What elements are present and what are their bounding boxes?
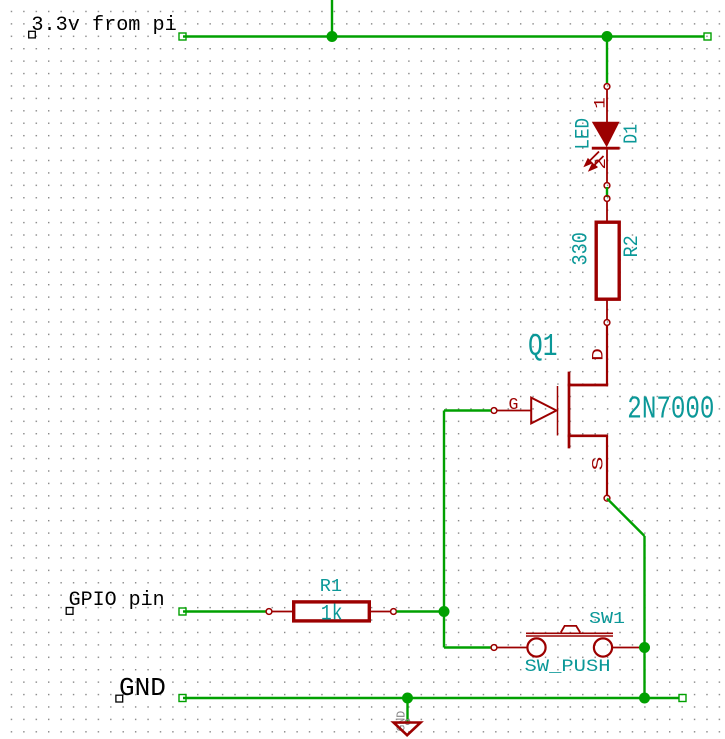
svg-text:R1: R1: [320, 576, 342, 597]
pin: R1 left pin: [272, 611, 294, 613]
svg-text:SW_PUSH: SW_PUSH: [525, 656, 611, 676]
junction: top rail / vertical feed: [327, 31, 338, 42]
node: Q1 source pin end circle: [604, 495, 610, 501]
transistor Q1 drain horizontal arm: [568, 384, 608, 387]
value label 2N7000 of Q1: [627, 393, 714, 428]
node: R2 top pin end circle: [604, 196, 610, 202]
svg-text:3.3v from pi: 3.3v from pi: [31, 14, 176, 37]
resistor R1 body: [294, 602, 370, 621]
switch SW1 actuator bump: [561, 626, 580, 633]
diode D1 triangle: [592, 122, 620, 148]
pin: R2 bottom pin: [606, 299, 608, 320]
wire: bottom GND rail: [183, 697, 679, 699]
reference label Q1: [528, 328, 557, 365]
ground symbol hidden pin name GND: [396, 711, 409, 732]
pin: Q1 gate pin: [497, 410, 531, 412]
node: LED D1 pin 1 end circle: [604, 84, 610, 90]
reference label SW1: [589, 609, 625, 628]
node: R1 left pin end circle: [266, 609, 272, 615]
wire: R1 to gate bus junction: [396, 610, 444, 612]
wire: top rail end open square: [704, 33, 711, 40]
svg-text:SW1: SW1: [589, 609, 625, 628]
junction: SW1 right pin / right vertical: [639, 642, 650, 653]
reference label D1: [622, 124, 643, 144]
resistor R2 body: [596, 222, 619, 299]
LED D1 emission arrow 1: [585, 152, 599, 166]
ground symbol hidden pin circle: [405, 720, 410, 725]
wire: vertical gate bus: [443, 411, 445, 648]
pin name D of Q1: [590, 348, 608, 361]
svg-text:GND: GND: [396, 711, 409, 732]
value label LED of D1: [571, 118, 595, 149]
transistor Q1 gate arrow triangle: [531, 398, 556, 424]
pin number 1 of D1: [592, 97, 610, 109]
pin: Q1 source vertical: [606, 436, 608, 496]
svg-text:S: S: [590, 457, 607, 471]
wire: between D1 cathode and R2: [606, 187, 608, 197]
LED D1 emission arrow 2: [590, 156, 604, 170]
wire: top horizontal 3.3v rail: [183, 35, 704, 37]
svg-text:1: 1: [592, 97, 610, 109]
pin: SW1 right pin: [612, 647, 641, 649]
reference label R2: [620, 235, 643, 257]
pin: LED D1 pin 2: [606, 150, 608, 183]
transistor Q1 channel line: [568, 372, 571, 449]
wire: GND symbol stub: [406, 698, 408, 722]
pin name S of Q1: [590, 457, 607, 471]
label anchor square GND: [116, 695, 123, 702]
svg-text:2N7000: 2N7000: [627, 393, 714, 428]
wire: Q1 source diagonal: [607, 499, 645, 537]
transistor Q1 source horizontal arm: [568, 434, 608, 437]
wire: from top rail down to LED anode: [606, 37, 608, 84]
pin: Q1 drain vertical: [606, 325, 608, 386]
wire: right vertical down to GND rail: [643, 536, 645, 698]
svg-text:D: D: [590, 348, 608, 361]
wire: GPIO to R1: [183, 610, 266, 612]
svg-text:D1: D1: [622, 124, 643, 144]
svg-text:1k: 1k: [321, 602, 343, 627]
junction: GND rail / right vertical: [639, 693, 650, 704]
junction: R1 output / gate bus: [439, 606, 450, 617]
wire: GPIO wire start open square: [179, 608, 186, 615]
svg-text:Q1: Q1: [528, 328, 557, 365]
pin: R1 right pin: [369, 611, 390, 613]
ground symbol triangle: [394, 723, 421, 736]
switch SW1 right contact circle: [594, 638, 612, 656]
pin: SW1 left pin: [497, 647, 528, 649]
junction: GND rail / GND symbol: [402, 693, 413, 704]
wire: GND rail end open square: [679, 695, 686, 702]
value label 330 of R2: [569, 232, 594, 265]
pin: LED D1 pin 1: [606, 89, 608, 122]
pin: R2 top pin: [606, 201, 608, 223]
transistor Q1 gate plate thin line: [557, 386, 559, 436]
pin number 2 of D1: [592, 158, 610, 170]
svg-text:G: G: [509, 395, 519, 414]
label anchor square 3.3v from pi: [29, 31, 36, 38]
svg-text:GND: GND: [119, 673, 166, 703]
svg-text:330: 330: [569, 232, 594, 265]
wire: horizontal to SW1 left pin: [444, 646, 491, 648]
svg-text:LED: LED: [571, 118, 595, 149]
wire: GND rail start open square: [179, 695, 186, 702]
node: R1 right pin end circle: [391, 609, 397, 615]
diode D1 cathode bar: [592, 147, 620, 150]
wire: vertical feed from top edge: [331, 0, 333, 38]
svg-text:GPIO pin: GPIO pin: [69, 589, 165, 612]
svg-text:R2: R2: [620, 235, 643, 257]
switch SW1 left contact circle: [527, 638, 545, 656]
node: R2 bottom pin end circle: [604, 320, 610, 326]
value label SW_PUSH of SW1: [525, 656, 611, 676]
wire: top rail start open square: [179, 33, 186, 40]
junction: top rail / LED branch: [602, 31, 613, 42]
node: Q1 gate pin end circle: [491, 408, 497, 414]
node: SW1 left pin end circle: [491, 645, 497, 651]
label anchor square GPIO pin: [66, 608, 73, 615]
value label 1k of R1: [321, 602, 343, 627]
node: LED D1 pin 2 end circle: [604, 183, 610, 189]
wire: gate horizontal to Q1: [444, 409, 491, 411]
switch SW1 bar upper line: [526, 632, 613, 634]
switch SW1 bar lower line: [526, 635, 613, 637]
